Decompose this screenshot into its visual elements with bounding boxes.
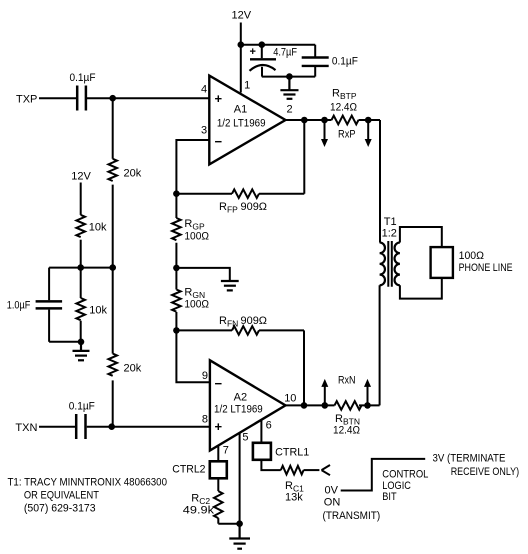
wire RC1 to contact <box>304 469 320 471</box>
resistor 20k upper <box>108 159 117 181</box>
transformer T1 secondary winding <box>395 243 400 286</box>
junction bypass ground <box>286 73 293 80</box>
svg-text:3: 3 <box>201 125 207 137</box>
svg-text:12V: 12V <box>232 10 252 22</box>
svg-text:10k: 10k <box>89 222 107 234</box>
open contact fork <box>322 465 331 475</box>
svg-text:+: + <box>215 91 223 106</box>
svg-text:6: 6 <box>266 420 272 432</box>
resistor RC1 13k <box>281 466 304 475</box>
svg-text:909Ω: 909Ω <box>241 201 268 213</box>
svg-text:TXN: TXN <box>15 422 37 434</box>
arrow RxP left <box>321 121 328 147</box>
svg-text:CONTROL: CONTROL <box>382 469 428 481</box>
control box CTRL2 <box>210 461 227 478</box>
wire bias node row <box>49 267 113 269</box>
svg-text:LOGIC: LOGIC <box>382 480 411 492</box>
capacitor C bypass 0.1uF <box>302 45 329 77</box>
arrow RxN right <box>364 379 371 405</box>
wire top supply rail <box>241 44 315 46</box>
wire secondary bottom loop <box>400 278 442 299</box>
svg-text:10k: 10k <box>89 305 107 317</box>
resistor 10k lower <box>76 268 85 342</box>
wire pin 5 to ground <box>239 433 241 524</box>
svg-text:1/2 LT1969: 1/2 LT1969 <box>217 117 266 129</box>
svg-text:5: 5 <box>242 432 248 444</box>
svg-text:ON: ON <box>324 497 341 509</box>
resistor 10k upper <box>76 215 85 237</box>
transformer T1 primary winding <box>380 243 385 286</box>
svg-text:RFP: RFP <box>219 201 238 215</box>
svg-text:OR EQUIVALENT: OR EQUIVALENT <box>24 490 99 502</box>
svg-text:−: − <box>215 134 223 149</box>
svg-text:100Ω: 100Ω <box>184 299 209 311</box>
svg-text:12.4Ω: 12.4Ω <box>333 425 360 437</box>
svg-text:RBTP: RBTP <box>332 88 357 102</box>
wire pin 3 to RGP node <box>176 140 209 194</box>
op-amp A2 <box>210 360 286 450</box>
wire secondary top loop <box>400 227 442 247</box>
svg-text:RxP: RxP <box>338 129 356 141</box>
svg-text:1/2 LT1969: 1/2 LT1969 <box>214 404 263 416</box>
junction 4.7uF tap <box>259 41 266 48</box>
svg-text:13k: 13k <box>285 492 303 504</box>
wire output branch down to T1 primary top <box>379 120 381 243</box>
wire 12V bias stem <box>80 183 82 215</box>
wire A2 output row <box>286 404 380 406</box>
svg-text:PHONE LINE: PHONE LINE <box>459 262 513 274</box>
svg-text:1:2: 1:2 <box>382 228 397 240</box>
wire A1 output feedback drop <box>303 120 305 194</box>
svg-text:4: 4 <box>201 84 207 96</box>
control box CTRL1 <box>253 443 271 460</box>
wire pin 7 <box>217 446 219 462</box>
svg-text:12.4Ω: 12.4Ω <box>330 102 357 114</box>
wire control logic step <box>341 459 426 491</box>
capacitor 1.0uF <box>36 268 82 342</box>
svg-text:+: + <box>215 419 223 434</box>
junction divider mid node <box>109 264 116 271</box>
junction RxN right <box>364 402 371 409</box>
resistor RBTN 12.4 ohm <box>335 401 362 410</box>
ground control <box>229 524 250 549</box>
svg-text:BIT: BIT <box>382 491 397 503</box>
svg-text:20k: 20k <box>124 168 142 180</box>
junction RxN left <box>322 402 329 409</box>
phone line load box <box>431 247 453 278</box>
svg-text:T1: T1 <box>384 216 397 228</box>
svg-text:20k: 20k <box>124 363 142 375</box>
ground bypass caps <box>280 77 298 99</box>
svg-text:RxN: RxN <box>338 375 356 387</box>
svg-text:A1: A1 <box>234 104 247 116</box>
wire divider line middle <box>112 185 114 354</box>
arrow RxP right <box>365 121 372 147</box>
resistor RGP 100 ohm <box>172 194 181 268</box>
wire coupling cap to pin 4 <box>87 97 209 99</box>
ground RG mid <box>221 281 239 290</box>
junction bias node <box>77 264 84 271</box>
capacitor 0.1uF TXP coupling <box>77 86 86 111</box>
svg-text:9: 9 <box>202 370 208 382</box>
resistor 20k lower <box>108 354 117 376</box>
svg-text:A2: A2 <box>234 392 247 404</box>
wire pin 6 <box>260 420 262 443</box>
svg-text:3V (TERMINATE: 3V (TERMINATE <box>433 452 506 464</box>
svg-text:0.1µF: 0.1µF <box>332 56 358 68</box>
svg-text:(507) 629-3173: (507) 629-3173 <box>24 503 96 515</box>
svg-text:−: − <box>215 376 223 391</box>
resistor RFN 909 ohm <box>176 326 304 335</box>
svg-text:0.1µF: 0.1µF <box>69 401 95 413</box>
junction top rail left <box>238 41 245 48</box>
junction node RFN <box>173 327 180 334</box>
junction A2 output <box>301 402 308 409</box>
wire 10k to bias node <box>80 240 82 268</box>
junction node RG mid <box>173 265 180 272</box>
svg-text:+: + <box>250 46 256 58</box>
wire TXN input <box>39 426 75 428</box>
junction control ground <box>236 520 243 527</box>
wire A1 output row <box>286 119 381 121</box>
svg-text:RECEIVE ONLY): RECEIVE ONLY) <box>451 466 519 478</box>
transformer T1 core <box>388 241 392 287</box>
wire RG mid to ground <box>176 268 229 280</box>
wire TXP input <box>39 97 76 99</box>
arrow RxN left <box>321 379 328 405</box>
junction A1 output <box>301 117 308 124</box>
svg-text:10: 10 <box>284 393 296 405</box>
resistor RBTP 12.4 ohm <box>332 116 359 125</box>
junction bias ground node <box>78 339 85 346</box>
wire bypass bottom rail <box>262 76 315 78</box>
wire CTRL1 to RC1 <box>261 460 280 470</box>
wire output branch up to T1 primary bottom <box>379 285 381 405</box>
svg-text:8: 8 <box>202 414 208 426</box>
svg-text:0V: 0V <box>325 484 339 496</box>
wire coupling cap to pin 8 <box>87 426 210 428</box>
ground bias <box>73 342 90 361</box>
wire divider line upper <box>112 98 114 159</box>
resistor RFP 909 ohm <box>176 189 304 198</box>
capacitor 0.1uF TXN coupling <box>76 414 85 439</box>
svg-text:TXP: TXP <box>16 94 37 106</box>
svg-text:RGP: RGP <box>184 218 205 232</box>
svg-text:T1: TRACY MINNTRONIX 48066300: T1: TRACY MINNTRONIX 48066300 <box>8 477 168 489</box>
junction RxP right <box>365 117 372 124</box>
svg-text:49.9k: 49.9k <box>183 505 215 517</box>
svg-text:2: 2 <box>287 104 293 116</box>
wire node to pin 9 <box>176 330 210 382</box>
svg-text:909Ω: 909Ω <box>241 315 268 327</box>
wire divider line lower <box>112 380 114 426</box>
svg-text:4.7µF: 4.7µF <box>273 47 297 59</box>
svg-text:CTRL1: CTRL1 <box>275 447 309 459</box>
svg-text:0.1µF: 0.1µF <box>70 72 96 84</box>
svg-text:100Ω: 100Ω <box>459 250 484 262</box>
wire RFN to A2 output <box>303 330 305 405</box>
resistor RGN 100 ohm <box>172 268 181 331</box>
capacitor C bypass 4.7uF electrolytic <box>250 45 277 77</box>
svg-text:(TRANSMIT): (TRANSMIT) <box>323 510 381 522</box>
svg-text:7: 7 <box>223 445 229 457</box>
op-amp A1 <box>209 76 285 165</box>
svg-text:12V: 12V <box>71 171 91 183</box>
svg-text:1.0µF: 1.0µF <box>7 300 31 312</box>
resistor RC2 49.9k <box>214 478 223 523</box>
svg-text:RFN: RFN <box>219 315 238 329</box>
svg-text:100Ω: 100Ω <box>184 231 209 243</box>
svg-text:CTRL2: CTRL2 <box>172 464 205 476</box>
junction node TXN <box>108 423 115 430</box>
wire RC2 to ground node <box>218 523 239 525</box>
junction node TXP <box>109 95 116 102</box>
svg-text:1: 1 <box>244 80 250 92</box>
wire 12V stem to pin 1 of A1 <box>240 23 242 93</box>
junction node RFP <box>173 190 180 197</box>
junction RxP left <box>321 117 328 124</box>
